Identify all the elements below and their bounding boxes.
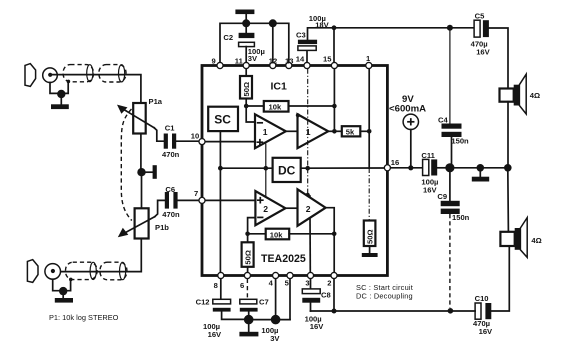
resistor 50R internal (pin 1) [364, 221, 376, 254]
junction 10k2 to output 2 [332, 232, 337, 237]
ground (pots, rotated bar) [142, 165, 157, 179]
svg-text:50Ω: 50Ω [242, 82, 251, 97]
junction pots ground [137, 168, 145, 176]
svg-text:C7: C7 [259, 298, 269, 307]
wire P1b bottom to input 2 [55, 239, 141, 272]
wire amp 2b output to pin 2 [326, 208, 335, 274]
op-amp IC1 TEA2025 outline [202, 66, 387, 276]
svg-text:P1a: P1a [149, 97, 163, 106]
wire amp 1b output [328, 130, 342, 132]
pin 14 [296, 55, 310, 69]
svg-text:7: 7 [194, 189, 198, 198]
shield tap dot cable 1 [67, 80, 71, 84]
wire pin 16 rail [391, 167, 423, 169]
wire rail to ground node [450, 167, 508, 169]
wire amp 1a to amp 1b [286, 130, 298, 132]
svg-text:10k: 10k [269, 103, 282, 112]
junction pin 15 output rail [332, 25, 337, 30]
capacitor C2 100u 3V [239, 23, 255, 62]
junction pin 4 ground [271, 315, 281, 325]
junction C4 tap on output rail [447, 25, 453, 31]
pin 10 [191, 131, 205, 144]
junction SC/pin8 on DC rail [218, 166, 223, 171]
wire bottom rail [311, 310, 476, 312]
svg-text:50Ω: 50Ω [243, 250, 252, 265]
wire pin 15 internal [333, 69, 335, 132]
svg-text:C2: C2 [223, 33, 233, 42]
wire jack 1 sleeve to ground [50, 83, 68, 94]
capacitor C7 100u 3V [240, 299, 258, 319]
svg-text:P1: 10k log STEREO: P1: 10k log STEREO [49, 313, 119, 322]
potentiometer P1a [117, 103, 154, 134]
op-amp triangle 1a [255, 114, 286, 148]
pin 13 [285, 57, 293, 69]
speaker LS1 4R [500, 74, 527, 114]
wire C6 to pin 7 [178, 199, 199, 201]
capacitor C8 100u 16V [302, 279, 320, 311]
svg-text:C12: C12 [196, 298, 210, 307]
wire DC bias to amp 2 [265, 168, 267, 197]
svg-text:TEA2025: TEA2025 [261, 253, 306, 265]
svg-text:8: 8 [214, 281, 218, 290]
svg-text:14: 14 [296, 55, 305, 64]
svg-text:16V: 16V [208, 330, 222, 339]
pin 6 [240, 272, 250, 290]
wire P1a wiper to C1 [154, 128, 164, 141]
wire C5 to speaker 1 [489, 28, 508, 89]
svg-text:3V: 3V [270, 334, 280, 343]
resistor 50R channel 1 [240, 69, 252, 106]
wire bias to pin 3 [309, 196, 311, 274]
wire pin 14 to pin 3 (dash-dot bias line) [307, 69, 309, 169]
pin 16 [384, 158, 399, 171]
junction 5k to pin 1 line [367, 129, 372, 134]
resistor 10k channel 1 [246, 101, 334, 112]
wire pin 1 internal [368, 69, 370, 168]
capacitor C10 470u 16V [475, 303, 491, 319]
junction feedback node 2 [245, 232, 250, 237]
svg-text:18V: 18V [315, 20, 329, 29]
pin 3 [305, 272, 313, 287]
screened cable sleeve 2b [100, 262, 127, 280]
wire speaker 1 to mid junction [507, 102, 509, 168]
svg-text:470n: 470n [162, 210, 180, 219]
svg-text:C10: C10 [475, 294, 489, 303]
potentiometer P1b [118, 208, 155, 238]
junction pin 12 ground node [269, 19, 277, 27]
svg-text:C9: C9 [437, 192, 447, 201]
junction pin 2 on bottom rail [332, 309, 337, 314]
junction amp 1b top vertex [296, 113, 300, 117]
svg-text:5k: 5k [346, 128, 355, 137]
svg-text:4Ω: 4Ω [531, 236, 541, 245]
supply 9V source [403, 114, 418, 129]
svg-text:15: 15 [323, 55, 332, 64]
svg-text:C8: C8 [321, 291, 331, 300]
decoupling box DC [273, 158, 301, 182]
wire speaker 2 to C10 [491, 246, 509, 311]
junction speakers mid node [504, 164, 512, 172]
wire output rail to C5 [334, 27, 474, 29]
ground (top net) [235, 10, 254, 24]
junction C2 ground node [242, 19, 250, 27]
pin 7 [194, 189, 205, 203]
start circuit box SC [208, 107, 238, 131]
svg-text:C4: C4 [438, 116, 448, 125]
wire speaker mid to speaker 2 [507, 168, 510, 232]
svg-text:P1b: P1b [155, 223, 169, 232]
junction input 2 ground [59, 287, 67, 295]
pin 8 [214, 272, 224, 290]
junction 9V on rail [408, 165, 413, 170]
wire DC bias to amp 1 [265, 144, 267, 168]
wire P1b wiper to C6 [155, 200, 165, 216]
junction 10k to pin 15 line [332, 104, 337, 109]
svg-text:C11: C11 [421, 151, 435, 160]
resistor 10k channel 2 [248, 229, 335, 240]
svg-text:470n: 470n [162, 150, 180, 159]
ground (input 1) [51, 94, 69, 109]
wire ground junction to P1b top [141, 172, 143, 208]
svg-text:16V: 16V [479, 327, 493, 336]
svg-text:<600mA: <600mA [389, 104, 426, 115]
pin 2 [327, 272, 337, 287]
svg-text:C5: C5 [475, 11, 485, 20]
ground (internal 500R) [362, 253, 378, 257]
wire 9V to pin16 rail [410, 130, 412, 168]
svg-text:16: 16 [391, 158, 399, 167]
wire pin 7 to amp 2a + [205, 199, 255, 201]
svg-text:10k: 10k [270, 230, 283, 239]
ground (C7/C12 node) [239, 320, 258, 337]
svg-text:16V: 16V [476, 47, 490, 56]
capacitor C4 150n [442, 28, 462, 163]
capacitor C3 100u 18V [298, 28, 334, 62]
ground (input 2) [55, 291, 73, 303]
svg-text:2: 2 [306, 204, 311, 214]
wire pin 1 line to 500R (dash-dot) [368, 168, 370, 221]
svg-text:16V: 16V [423, 185, 437, 194]
speaker LS2 4R [500, 218, 527, 258]
screened cable sleeve 2a [66, 262, 98, 279]
ground (pin16 rail) [472, 168, 489, 182]
junction input 1 ground [57, 90, 65, 98]
svg-text:150n: 150n [451, 136, 469, 145]
resistor 50R channel 2 [242, 234, 254, 274]
pin 1 [366, 54, 372, 68]
junction output 1 to pin 15 [332, 129, 337, 134]
svg-text:10: 10 [191, 131, 199, 140]
pin 5 [285, 272, 293, 287]
svg-text:2: 2 [327, 279, 331, 288]
wire pin 12 to ground net [272, 23, 274, 62]
svg-text:SC: SC [214, 113, 231, 127]
svg-text:1: 1 [263, 127, 268, 137]
wire C1 to pin 10 [176, 140, 199, 142]
pin 11 [235, 57, 249, 69]
pin 9 [212, 57, 224, 69]
svg-text:C6: C6 [165, 185, 175, 194]
input jack socket 1 [43, 68, 58, 83]
wire pin 10 to amp 1a + [205, 141, 255, 143]
wire inverting input amp 1a [246, 106, 255, 122]
junction feedback node 1 [244, 104, 249, 109]
shield tap dot cable 2 [69, 278, 73, 282]
svg-text:3V: 3V [248, 54, 258, 63]
svg-text:3: 3 [305, 279, 309, 288]
svg-text:6: 6 [240, 281, 244, 290]
wire pin 15 to output rail [333, 28, 335, 62]
junction bias on amp 2b edge [306, 193, 310, 197]
svg-text:DC: DC [278, 164, 296, 178]
pin 4 [269, 272, 279, 287]
svg-text:16V: 16V [310, 322, 324, 331]
capacitor C9 150n [441, 172, 460, 214]
wire pin 5 down [289, 279, 291, 320]
op-amp triangle 1b [298, 114, 329, 148]
wire P1a bottom to ground junction [140, 134, 142, 173]
svg-text:50Ω: 50Ω [365, 229, 374, 244]
wire jack 2 sleeve to ground [53, 279, 71, 291]
svg-text:1: 1 [306, 127, 311, 137]
resistor 5k [342, 126, 369, 136]
wire pin 2 to bottom rail [333, 279, 335, 311]
screened cable sleeve 1a [63, 65, 93, 82]
svg-text:C3: C3 [296, 31, 306, 40]
capacitor C5 470u 16V [474, 20, 489, 37]
input jack socket 2 [45, 264, 61, 280]
junction pin14 line on DC rail [305, 166, 310, 171]
wire inverting input amp 2a [248, 218, 256, 234]
wire input 1 signal [52, 75, 141, 103]
svg-text:2: 2 [263, 204, 268, 214]
capacitor C12 100u 16V [213, 279, 249, 320]
svg-text:4Ω: 4Ω [530, 91, 540, 100]
input connector plug 1 (top left) [25, 64, 36, 87]
ganged pot coupling (dashed) [121, 109, 132, 221]
svg-text:C1: C1 [165, 123, 175, 132]
svg-text:9: 9 [212, 57, 216, 66]
capacitor C6 470n [165, 192, 178, 209]
capacitor C1 470n [164, 134, 177, 149]
capacitor C11 100u 16V [423, 159, 450, 175]
wire pin 4 down [275, 279, 277, 320]
junction C4/C9 node [445, 163, 454, 172]
wire DC rail (pin 16 line) [220, 167, 272, 169]
junction rail ground node [477, 164, 485, 172]
junction C7 ground node [244, 315, 254, 325]
junction DC bias left [264, 166, 269, 171]
pin 15 [323, 55, 337, 69]
screened cable sleeve 1b [99, 65, 126, 82]
wire amp 2a to amp 2b [285, 207, 297, 209]
svg-text:IC1: IC1 [271, 81, 288, 93]
svg-text:11: 11 [235, 57, 244, 66]
svg-text:DC : Decoupling: DC : Decoupling [356, 292, 413, 301]
input connector plug 2 (bottom left) [27, 260, 38, 283]
op-amp triangle 2b [298, 189, 326, 226]
wire pin 6 to C7 (dashed) [246, 279, 248, 300]
svg-text:150n: 150n [452, 213, 470, 222]
wire C9 to bottom rail (dashed) [449, 214, 451, 308]
junction C9 on bottom rail [448, 308, 454, 314]
wire SC to DC rail junction and pin 8 [219, 131, 221, 273]
wire top ground net pins 9-12-13 [220, 23, 289, 62]
wire pins 4,5 to ground node [249, 319, 290, 321]
pin 12 [269, 57, 277, 69]
op-amp triangle 2a [255, 191, 285, 225]
